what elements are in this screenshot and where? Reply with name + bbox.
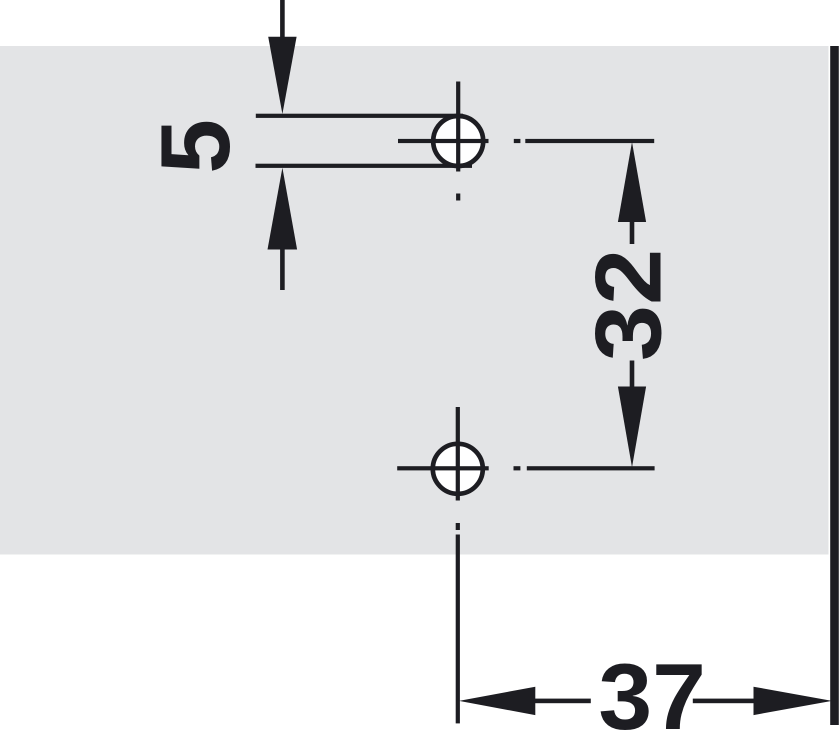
hole A (top drill hole) (433, 116, 483, 166)
dimension 32 bottom extension line (527, 466, 655, 470)
hole B vertical centerline (456, 407, 460, 530)
panel (mounting surface) (0, 46, 829, 555)
dimension 5 top arrow (268, 0, 296, 114)
svg-text:5: 5 (140, 119, 250, 174)
board front edge (thick vertical line) (830, 46, 839, 725)
dimension 32 top extension line (525, 139, 654, 143)
dimension 5 top extension line (256, 114, 463, 118)
dimension 5 bottom arrow (268, 168, 298, 290)
dimension 32 upper arrow (618, 142, 646, 244)
dimension 37 left arrow (459, 687, 591, 715)
hole A vertical centerline (456, 82, 460, 201)
hole B horizontal centerline (397, 466, 520, 470)
dimension 37 right arrow (693, 687, 832, 715)
dimension 5 bottom extension line (256, 164, 473, 168)
dimension 37 vertical extension line (hole B centerline continued) (456, 535, 460, 724)
dimension 32 lower arrow (618, 361, 646, 468)
hole A horizontal centerline (398, 139, 520, 143)
hole B (bottom drill hole) (433, 444, 483, 494)
svg-text:32: 32 (575, 249, 680, 362)
svg-text:37: 37 (598, 644, 706, 730)
